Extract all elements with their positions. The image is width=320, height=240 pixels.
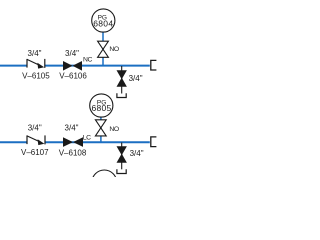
svg-text:3/4": 3/4" bbox=[129, 74, 143, 83]
svg-text:6804: 6804 bbox=[93, 18, 113, 28]
svg-text:NO: NO bbox=[109, 46, 119, 53]
svg-text:V–6105: V–6105 bbox=[22, 71, 50, 80]
svg-text:V–6106: V–6106 bbox=[59, 71, 87, 80]
svg-text:6805: 6805 bbox=[91, 103, 111, 113]
svg-text:3/4": 3/4" bbox=[65, 49, 79, 58]
svg-text:NO: NO bbox=[109, 126, 119, 133]
svg-text:V–6107: V–6107 bbox=[21, 148, 49, 157]
svg-text:3/4": 3/4" bbox=[28, 123, 42, 132]
svg-text:NC: NC bbox=[83, 56, 93, 63]
svg-text:LC: LC bbox=[83, 134, 91, 141]
svg-text:3/4": 3/4" bbox=[130, 149, 144, 158]
svg-text:3/4": 3/4" bbox=[65, 123, 79, 132]
svg-text:3/4": 3/4" bbox=[28, 49, 42, 58]
svg-text:V–6108: V–6108 bbox=[59, 148, 87, 157]
